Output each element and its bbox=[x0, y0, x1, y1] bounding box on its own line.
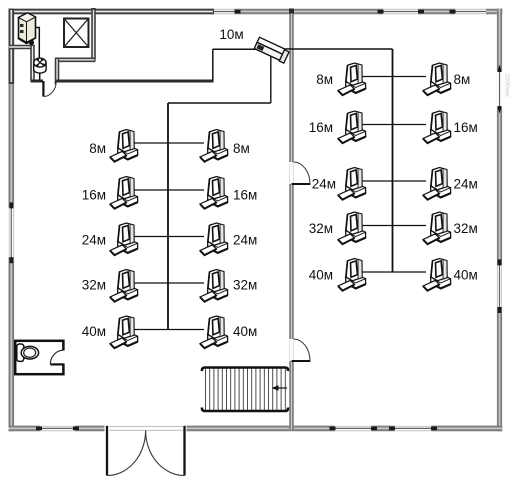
pc R4-left bbox=[338, 212, 366, 244]
pc R3-left bbox=[338, 168, 366, 200]
door partition lower bbox=[290, 339, 311, 361]
pc R3-right bbox=[423, 168, 451, 200]
branch left room row2 bbox=[134, 189, 204, 191]
svg-text:8м: 8м bbox=[454, 72, 471, 87]
window left wall bbox=[8, 202, 14, 263]
svg-text:10м: 10м bbox=[219, 27, 243, 42]
window right wall (dimension segment) bbox=[497, 65, 511, 114]
wall shaft right bbox=[91, 8, 96, 60]
toilet door opening bbox=[61, 350, 66, 364]
pc L1-right bbox=[200, 130, 228, 162]
window top B bbox=[378, 9, 425, 15]
pc L3-right bbox=[200, 223, 228, 255]
window bottom right B bbox=[389, 426, 437, 432]
toilet room walls bbox=[15, 341, 63, 374]
branch right room row1 bbox=[358, 76, 426, 78]
svg-text:16м: 16м bbox=[82, 188, 106, 203]
stair rail top bbox=[202, 368, 288, 372]
branch left room row4 bbox=[134, 282, 204, 284]
branch right room row5 bbox=[358, 271, 426, 273]
window top C bbox=[450, 9, 487, 15]
cable left room top bbox=[168, 102, 271, 104]
svg-text:24м: 24м bbox=[233, 233, 257, 248]
trunk right room bbox=[392, 49, 394, 272]
toilet door swing arc bbox=[50, 350, 63, 364]
svg-text:40м: 40м bbox=[82, 324, 106, 339]
switch 10m bbox=[254, 37, 289, 63]
wall shaft lip bbox=[55, 57, 96, 62]
pc L2-right bbox=[200, 177, 228, 209]
stair arrow bbox=[274, 387, 287, 389]
pc R1-left bbox=[338, 63, 366, 95]
stair treads bbox=[206, 369, 286, 411]
svg-text:40м: 40м bbox=[454, 268, 478, 283]
toilet bowl inner bbox=[24, 348, 36, 357]
pc L5-right bbox=[200, 316, 228, 348]
svg-text:8м: 8м bbox=[316, 72, 333, 87]
branch right room row3 bbox=[358, 180, 426, 182]
svg-text:40м: 40м bbox=[309, 268, 333, 283]
branch right room row4 bbox=[358, 225, 426, 227]
wall shaft jog bbox=[55, 58, 60, 81]
pc L3-left bbox=[110, 223, 138, 255]
svg-text:40м: 40м bbox=[233, 324, 257, 339]
svg-text:8м: 8м bbox=[233, 141, 250, 156]
wall top bbox=[9, 9, 503, 15]
svg-text:24м: 24м bbox=[312, 177, 336, 192]
pc R5-left bbox=[338, 259, 366, 291]
toilet tank bbox=[17, 344, 24, 361]
svg-text:16м: 16м bbox=[454, 120, 478, 135]
window right wall lower bbox=[497, 259, 503, 313]
svg-text:24м: 24м bbox=[82, 233, 106, 248]
svg-text:32м: 32м bbox=[309, 221, 333, 236]
wall room left overlay bbox=[9, 9, 15, 84]
wall bottom bbox=[9, 426, 503, 432]
cable switch drop bbox=[270, 55, 272, 103]
wall right bbox=[497, 9, 502, 432]
branch left room row3 bbox=[134, 236, 204, 238]
svg-text:32м: 32м bbox=[454, 221, 478, 236]
elevator shaft box bbox=[64, 19, 89, 48]
stair rail bottom bbox=[202, 408, 288, 412]
wall closet bottom bbox=[9, 45, 35, 50]
svg-text:8м: 8м bbox=[89, 141, 106, 156]
wall left bbox=[9, 9, 15, 432]
pc L4-left bbox=[110, 270, 138, 302]
branch right room row2 bbox=[358, 124, 426, 126]
pc R1-right bbox=[423, 63, 451, 95]
window top A bbox=[208, 9, 241, 15]
svg-text:16м: 16м bbox=[309, 120, 333, 135]
server cable bbox=[27, 28, 40, 60]
branch left room row1 bbox=[134, 142, 204, 144]
svg-text:24м: 24м bbox=[454, 177, 478, 192]
pc L4-right bbox=[200, 270, 228, 302]
branch left room row5 bbox=[134, 329, 204, 331]
pc R2-right bbox=[423, 111, 451, 143]
wall closet jamb bbox=[30, 45, 35, 81]
pc R5-right bbox=[423, 259, 451, 291]
wall room top bbox=[9, 9, 215, 15]
pc R4-right bbox=[423, 212, 451, 244]
toilet bowl bbox=[21, 346, 38, 359]
pc R2-left bbox=[338, 111, 366, 143]
wall hall bottom bbox=[31, 80, 44, 83]
svg-text:32м: 32м bbox=[233, 278, 257, 293]
window bottom right A bbox=[330, 426, 378, 432]
server tower bbox=[19, 13, 36, 45]
trunk left room bbox=[167, 103, 169, 330]
svg-text:16м: 16м bbox=[233, 188, 257, 203]
svg-text:2000мм: 2000мм bbox=[504, 73, 511, 97]
svg-text:32м: 32м bbox=[82, 278, 106, 293]
cable hall to switch bbox=[212, 49, 214, 81]
door hall bbox=[43, 81, 56, 97]
fan device bbox=[34, 58, 46, 73]
window bottom left bbox=[36, 426, 79, 432]
door partition upper bbox=[290, 162, 311, 184]
pc L1-left bbox=[110, 130, 138, 162]
pc L2-left bbox=[110, 177, 138, 209]
toilet door leaf bbox=[50, 363, 64, 365]
pc L5-left bbox=[110, 316, 138, 348]
cable switch to right room bbox=[281, 48, 393, 50]
